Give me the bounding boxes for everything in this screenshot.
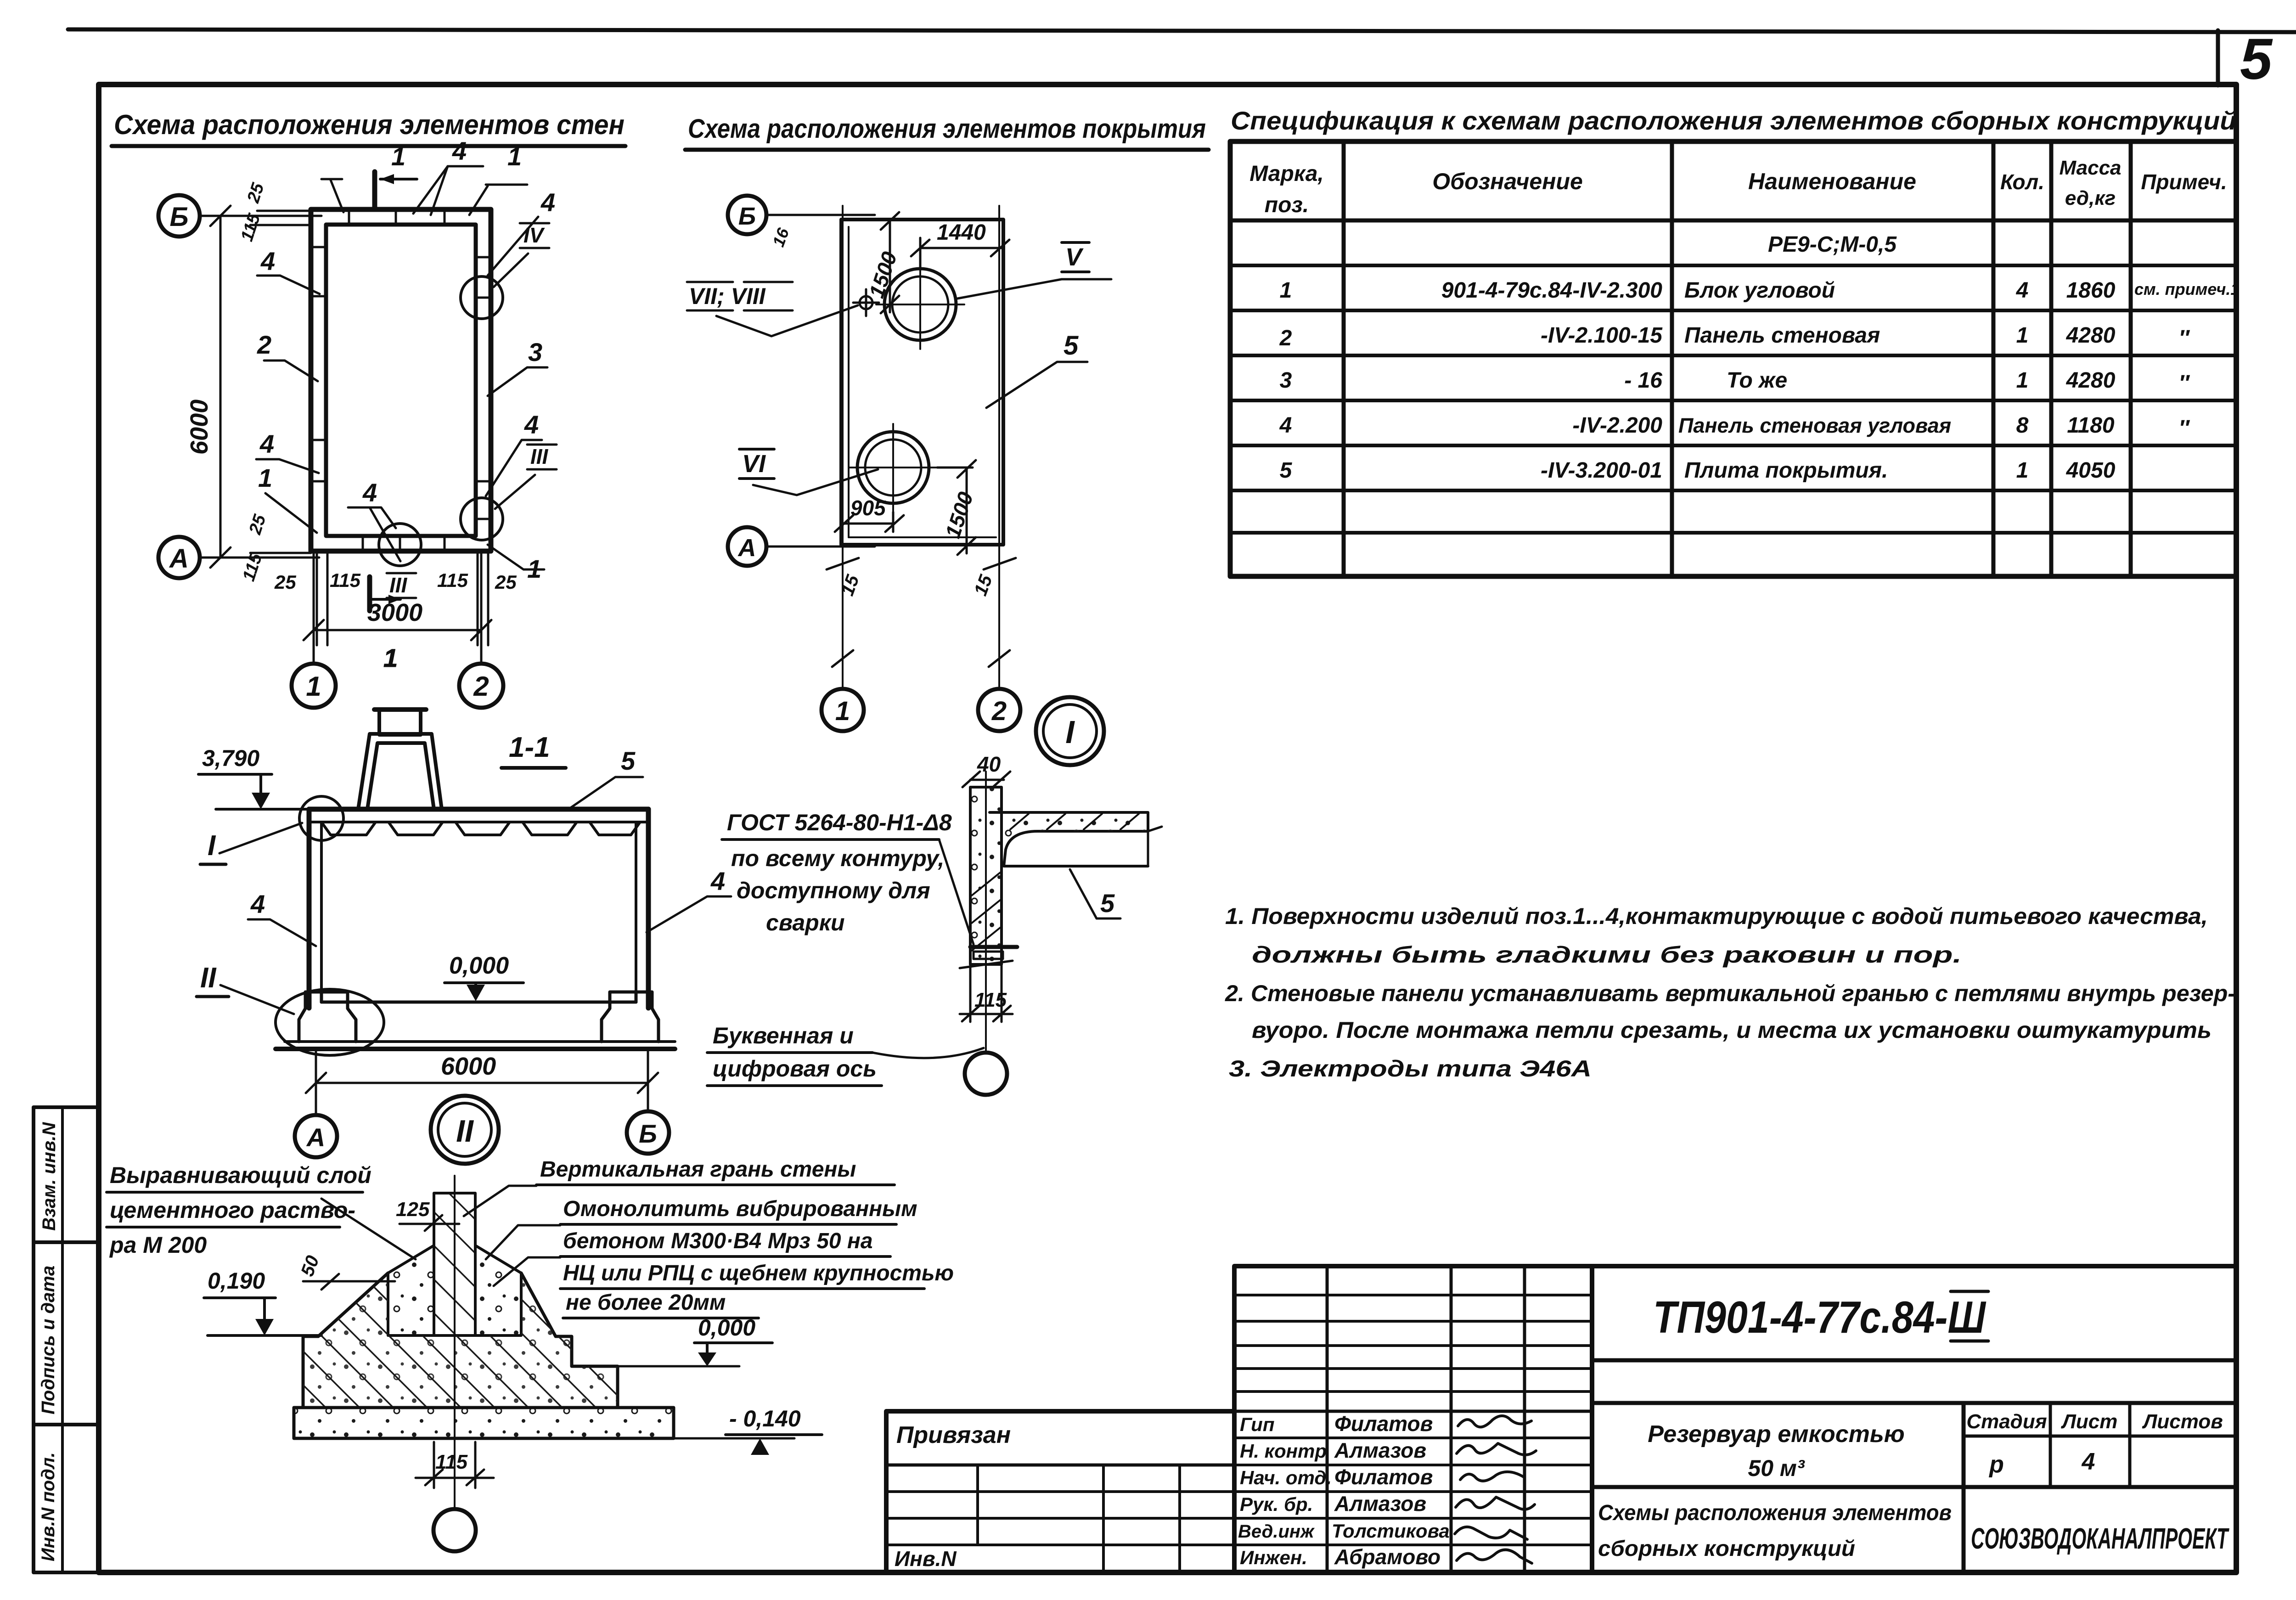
tank footings (276, 992, 675, 1049)
svg-text:2: 2 (473, 671, 489, 702)
leader label 4 with node III (bottom) (348, 478, 416, 598)
axis line (node I) (985, 772, 987, 1052)
svg-text:6000: 6000 (441, 1053, 496, 1080)
joint detail circle bottom-right (461, 498, 503, 540)
vertical dim line 6000 (210, 206, 311, 568)
svg-text:3: 3 (528, 338, 542, 366)
svg-text:I: I (208, 830, 216, 862)
svg-text:-IV-3.200-01: -IV-3.200-01 (1541, 458, 1662, 483)
svg-text:4050: 4050 (2066, 458, 2116, 483)
axis circle А (158, 537, 200, 578)
svg-text:4: 4 (1279, 413, 1292, 438)
svg-text:по всему контуру,: по всему контуру, (731, 845, 944, 871)
svg-text:5: 5 (1100, 889, 1115, 918)
svg-text:4: 4 (362, 478, 377, 507)
leader label 4 (left lower) (256, 429, 319, 473)
svg-text:-IV-2.100-15: -IV-2.100-15 (1541, 323, 1663, 348)
svg-text:I: I (1065, 714, 1075, 750)
svg-text:2: 2 (991, 696, 1007, 726)
svg-text:Филатов: Филатов (1334, 1412, 1433, 1436)
svg-text:- 0,140: - 0,140 (729, 1406, 801, 1431)
svg-text:А: А (169, 544, 189, 574)
svg-text:1: 1 (507, 142, 522, 171)
svg-text:Лист: Лист (2061, 1410, 2118, 1433)
svg-text:1-1: 1-1 (509, 732, 550, 763)
svg-text:сварки: сварки (766, 910, 845, 935)
axis circle 2 (wall scheme) (459, 664, 503, 708)
axis line Б (200, 215, 321, 217)
leader V (957, 279, 1111, 299)
svg-text:Панель стеновая угловая: Панель стеновая угловая (1678, 414, 1951, 437)
right part (1592, 1264, 2236, 1268)
svg-text:1: 1 (383, 643, 398, 672)
svg-text:- 16: - 16 (1624, 368, 1662, 393)
svg-text:5: 5 (1280, 458, 1293, 483)
haunch right (475, 1245, 521, 1335)
svg-text:сборных конструкций: сборных конструкций (1598, 1537, 1855, 1561)
leader label 3 (right) (488, 338, 547, 396)
svg-text:поз.: поз. (1265, 193, 1309, 217)
tick marks at bottom axes (832, 650, 1010, 667)
sheet number box divider (2216, 30, 2220, 85)
dim 905 (835, 512, 904, 532)
dim 1500 lower (rotated) (937, 460, 976, 555)
slab hatch lines (1010, 814, 1139, 829)
node I wall strip (970, 787, 1002, 964)
axis line А (200, 557, 319, 559)
svg-text:Инв.N подл.: Инв.N подл. (38, 1452, 58, 1561)
svg-text:ед,кг: ед,кг (2065, 187, 2116, 209)
svg-text:III: III (530, 445, 549, 468)
svg-text:1: 1 (2016, 323, 2029, 348)
svg-text:Омонолитить вибрированным: Омонолитить вибрированным (563, 1197, 917, 1221)
svg-text:1: 1 (391, 142, 405, 171)
svg-text:″: ″ (2179, 326, 2190, 350)
axis line Б (cover) (766, 214, 875, 216)
svg-text:Обозначение: Обозначение (1432, 169, 1583, 194)
signature table (1234, 1266, 1592, 1572)
svg-text:ТП901-4-77с.84-Ш: ТП901-4-77с.84-Ш (1653, 1292, 1986, 1342)
svg-text:А: А (737, 534, 756, 562)
svg-text:А: А (306, 1123, 325, 1152)
svg-text:Схема расположения элементов с: Схема расположения элементов стен (114, 109, 625, 140)
svg-text:5: 5 (621, 746, 636, 775)
axis circle Б (section) (627, 1111, 669, 1154)
axis line (node II) (454, 1176, 456, 1509)
svg-text:Панель стеновая: Панель стеновая (1684, 323, 1880, 348)
leader label 4 (left upper) (257, 247, 320, 294)
hatch tower on roof (358, 710, 442, 809)
svg-text:РЕ9-С;М-0,5: РЕ9-С;М-0,5 (1768, 232, 1897, 257)
svg-text:4280: 4280 (2066, 323, 2116, 348)
svg-text:Марка,: Марка, (1249, 162, 1324, 186)
node I circle on top corner (299, 796, 343, 840)
svg-text:4: 4 (250, 890, 265, 918)
leader label 1 (bottom-left) (258, 463, 317, 533)
svg-text:Листов: Листов (2142, 1410, 2223, 1433)
svg-text:см. примеч.1: см. примеч.1 (2134, 280, 2240, 299)
left attach part (886, 1411, 1234, 1572)
svg-text:Гип: Гип (1240, 1414, 1275, 1435)
svg-text:Б: Б (169, 202, 188, 232)
svg-text:0,000: 0,000 (449, 952, 509, 979)
leader VII VIII (716, 305, 858, 336)
wall edge extension lines below plan (317, 551, 488, 645)
svg-text:4: 4 (260, 247, 275, 276)
svg-text:50 м³: 50 м³ (1748, 1455, 1805, 1481)
svg-text:II: II (200, 962, 217, 994)
wall scheme title underline (112, 144, 625, 148)
dim line 3000 (304, 551, 491, 664)
leader label 4 (top) (413, 136, 483, 215)
svg-text:Инжен.: Инжен. (1240, 1547, 1307, 1568)
axis circle 1 (cover) (822, 689, 864, 731)
svg-text:″: ″ (2179, 416, 2190, 440)
svg-text:Спецификация к схемам располож: Спецификация к схемам расположения элеме… (1231, 106, 2236, 135)
svg-text:Н. контр: Н. контр (1240, 1440, 1327, 1462)
svg-text:Толстикова: Толстикова (1332, 1520, 1450, 1542)
svg-text:0,000: 0,000 (698, 1315, 755, 1341)
svg-text:Взам. инв.N: Взам. инв.N (39, 1122, 59, 1231)
leader label 1 (top-right) (469, 142, 527, 215)
wall panel joints (311, 209, 491, 551)
svg-text:То же: То же (1727, 368, 1787, 393)
hatch hole VI (lower) (849, 424, 937, 512)
section mark 1 bottom (370, 577, 400, 672)
svg-text:Буквенная и: Буквенная и (713, 1023, 854, 1048)
wall panel stub (node II) (388, 1193, 521, 1335)
leader label 4 with node IV (right top) (488, 188, 555, 287)
svg-text:Примеч.: Примеч. (2141, 170, 2227, 194)
leader label 1 (top-left) (321, 142, 405, 212)
top edge trim line (68, 29, 2296, 32)
leader from Выравнивающий to mortar layer (321, 1199, 416, 1259)
svg-text:Блок угловой: Блок угловой (1684, 278, 1835, 303)
svg-text:Алмазов: Алмазов (1334, 1438, 1426, 1462)
svg-text:6000: 6000 (186, 400, 213, 455)
svg-text:2: 2 (1279, 326, 1292, 350)
svg-text:VII; VIII: VII; VIII (689, 283, 766, 309)
svg-text:905: 905 (850, 496, 886, 520)
svg-text:1. Поверхности изделий поз.1..: 1. Поверхности изделий поз.1...4,контакт… (1225, 903, 2208, 929)
svg-text:-IV-2.200: -IV-2.200 (1572, 413, 1662, 438)
svg-text:Алмазов: Алмазов (1334, 1492, 1426, 1515)
svg-text:0,190: 0,190 (208, 1268, 265, 1294)
svg-text:Резервуар емкостью: Резервуар емкостью (1648, 1421, 1904, 1448)
svg-text:1: 1 (2016, 368, 2029, 393)
foundation bottom slab (294, 1408, 674, 1438)
spec table grid (1230, 141, 2236, 576)
svg-text:3000: 3000 (367, 599, 422, 626)
axis circle (node II, empty) (433, 1509, 476, 1551)
svg-text:Наименование: Наименование (1748, 169, 1916, 194)
svg-text:Вед.инж: Вед.инж (1238, 1521, 1315, 1542)
svg-text:Б: Б (639, 1119, 657, 1148)
svg-text:4: 4 (259, 429, 274, 458)
svg-text:4: 4 (2082, 1448, 2095, 1475)
section mark 1 top (375, 172, 417, 208)
axis circle 2 (cover) (978, 689, 1020, 731)
svg-text:4: 4 (452, 136, 467, 165)
leader label 2 (left) (257, 330, 318, 381)
svg-text:Привязан: Привязан (896, 1422, 1011, 1448)
svg-text:4: 4 (524, 410, 539, 439)
signatures squiggles (1455, 1416, 1536, 1563)
svg-text:Кол.: Кол. (2000, 170, 2044, 194)
svg-text:2. Стеновые панели устанавлива: 2. Стеновые панели устанавливать вертика… (1225, 980, 2235, 1006)
wall break line (960, 961, 1013, 968)
svg-text:IV: IV (523, 223, 545, 247)
node circle II label (big) (431, 1096, 499, 1164)
svg-text:4: 4 (540, 188, 555, 217)
svg-text:1: 1 (306, 671, 321, 702)
leader label 4 with node III (right bottom) (486, 410, 557, 509)
node I label circle (1036, 697, 1104, 765)
dim 1440 (911, 238, 1009, 270)
svg-text:Б: Б (738, 203, 756, 230)
haunch left (388, 1245, 434, 1335)
svg-text:III: III (389, 573, 408, 597)
svg-text:цементного раство-: цементного раство- (110, 1197, 355, 1223)
svg-text:1860: 1860 (2066, 278, 2116, 303)
svg-text:115: 115 (437, 569, 468, 591)
svg-text:4280: 4280 (2066, 368, 2116, 393)
svg-text:25: 25 (274, 571, 296, 593)
leader label 1 (bottom-right) (488, 545, 544, 583)
svg-text:Абрамово: Абрамово (1334, 1545, 1441, 1569)
svg-text:Инв.N: Инв.N (895, 1547, 957, 1571)
svg-text:115: 115 (330, 569, 361, 591)
svg-text:V: V (1065, 243, 1084, 271)
svg-text:1: 1 (1280, 278, 1292, 303)
svg-text:доступному для: доступному для (737, 878, 930, 903)
leader from Омонолитить to haunch (486, 1225, 560, 1259)
svg-text:Филатов: Филатов (1334, 1465, 1433, 1489)
axis circle Б (cover) (728, 196, 766, 234)
axis circle А (section) (295, 1115, 337, 1157)
node II oval on left footing (276, 989, 384, 1055)
node I roof slab (990, 812, 1148, 866)
svg-text:ра М 200: ра М 200 (109, 1232, 207, 1258)
svg-text:СОЮЗВОДОКАНАЛПРОЕКТ: СОЮЗВОДОКАНАЛПРОЕКТ (1971, 1522, 2229, 1555)
svg-text:бетоном М300·В4 Мрз 50 на: бетоном М300·В4 Мрз 50 на (563, 1229, 873, 1253)
svg-text:ГОСТ 5264-80-Н1-Δ8: ГОСТ 5264-80-Н1-Δ8 (727, 810, 952, 835)
axis circle (node I, empty) (965, 1053, 1007, 1095)
svg-text:должны быть гладкими без раков: должны быть гладкими без раковин и пор. (1252, 942, 1962, 968)
cover plate outline (841, 220, 1003, 545)
svg-text:4: 4 (2016, 278, 2029, 303)
axis line 1 (vertical) (842, 206, 844, 688)
node I wall lower hatch (972, 873, 1000, 951)
svg-text:25: 25 (495, 571, 517, 593)
left stamp column (34, 1107, 99, 1572)
svg-text:Схема расположения элементов п: Схема расположения элементов покрытия (688, 114, 1206, 144)
svg-text:VI: VI (742, 450, 766, 478)
svg-text:5: 5 (1064, 331, 1079, 361)
joint detail circle bottom-middle (379, 524, 421, 566)
svg-text:115: 115 (435, 1451, 468, 1473)
dim 1500 upper (rotated) (881, 212, 899, 313)
hatch hole V (upper) (876, 261, 964, 349)
svg-text:4: 4 (710, 867, 725, 896)
svg-text:1: 1 (2016, 458, 2029, 483)
svg-text:II: II (456, 1114, 474, 1149)
svg-text:Схемы расположения элементов: Схемы расположения элементов (1598, 1501, 1952, 1525)
svg-text:Плита покрытия.: Плита покрытия. (1684, 458, 1888, 483)
axis line 2 (vertical) (998, 206, 1000, 688)
svg-text:Стадия: Стадия (1966, 1410, 2047, 1433)
svg-text:НЦ или РПЦ с щебнем крупностью: НЦ или РПЦ с щебнем крупностью (563, 1261, 954, 1285)
svg-text:р: р (1988, 1451, 2004, 1478)
svg-text:″: ″ (2179, 371, 2190, 395)
svg-text:1440: 1440 (937, 220, 986, 245)
svg-text:Подпись и дата: Подпись и дата (38, 1266, 58, 1414)
joint detail circle top-right (461, 276, 503, 319)
svg-text:125: 125 (396, 1198, 430, 1221)
svg-text:1: 1 (835, 696, 850, 726)
axis line А (cover) (766, 546, 875, 548)
svg-text:вуоро. После монтажа петли сре: вуоро. После монтажа петли срезать, и ме… (1252, 1017, 2212, 1043)
svg-text:Рук. бр.: Рук. бр. (1240, 1493, 1313, 1515)
axis circle А (cover) (728, 527, 766, 566)
foundation body (318, 1273, 388, 1336)
tank walls (section) (309, 809, 648, 1008)
wall plan outer rect (311, 209, 491, 551)
axis circle 1 (wall scheme) (292, 664, 336, 708)
weld embed plate (970, 945, 1017, 949)
svg-text:не более 20мм: не более 20мм (566, 1290, 726, 1315)
svg-text:2: 2 (257, 330, 271, 359)
dim 6000 (section) (306, 1052, 658, 1115)
svg-text:Нач. отд.: Нач. отд. (1240, 1467, 1332, 1488)
leader VI (753, 469, 878, 495)
tank roof slab (309, 809, 648, 835)
svg-text:цифровая ось: цифровая ось (713, 1056, 877, 1082)
covering scheme title underline (685, 148, 1209, 152)
svg-text:901-4-79с.84-IV-2.300: 901-4-79с.84-IV-2.300 (1441, 278, 1663, 303)
svg-text:3,790: 3,790 (202, 745, 259, 771)
svg-text:Вертикальная грань стены: Вертикальная грань стены (540, 1157, 856, 1182)
svg-text:1180: 1180 (2067, 413, 2115, 438)
leader 5 (cover) (986, 362, 1087, 408)
svg-text:3. Электроды типа Э46А: 3. Электроды типа Э46А (1229, 1056, 1592, 1082)
svg-text:1: 1 (258, 463, 272, 492)
wall plan inner rect (326, 225, 476, 536)
svg-text:Выравнивающий слой: Выравнивающий слой (110, 1162, 371, 1188)
embed point VII VIII (853, 289, 879, 316)
svg-text:8: 8 (2016, 413, 2029, 438)
svg-text:5: 5 (2240, 27, 2273, 91)
axis circle Б (158, 195, 200, 237)
svg-text:3: 3 (1280, 368, 1292, 393)
svg-text:Масса: Масса (2059, 157, 2121, 179)
